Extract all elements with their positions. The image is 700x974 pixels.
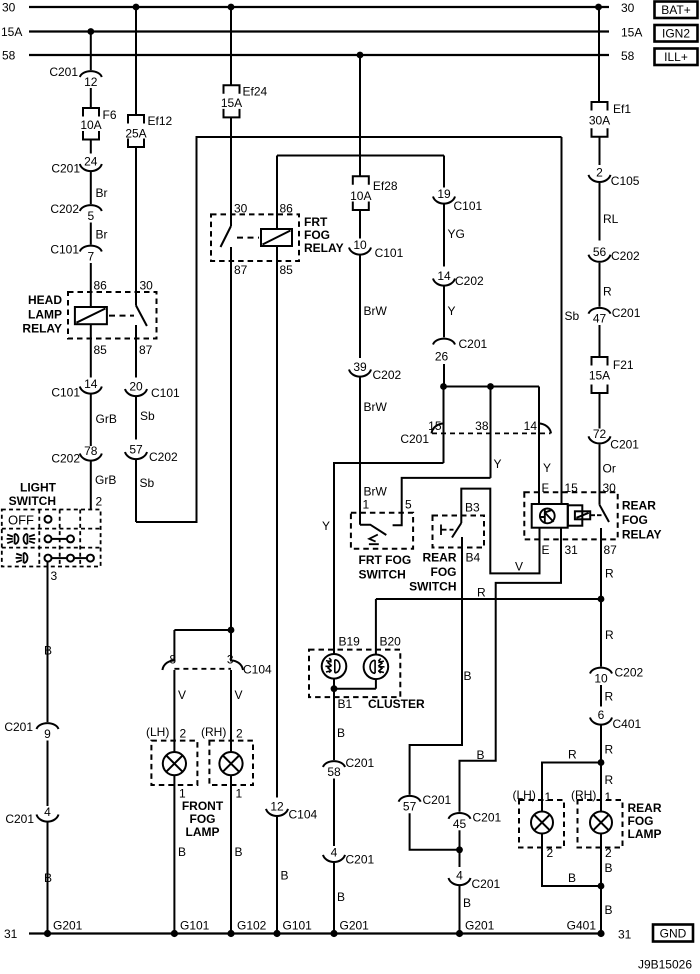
svg-text:REAR: REAR [628, 801, 662, 815]
svg-text:BrW: BrW [364, 485, 388, 499]
svg-text:YG: YG [448, 227, 465, 241]
wire R to rear fog lamp RH [600, 763, 602, 812]
ground G201 [44, 930, 51, 937]
svg-text:Ef24: Ef24 [243, 85, 268, 99]
connector C101 pin 20 [125, 389, 147, 396]
coil of front fog relay [261, 229, 292, 246]
svg-text:GrB: GrB [96, 412, 117, 426]
junction on bus 15A [87, 28, 94, 35]
bus wire 31 (ground) [29, 932, 601, 934]
wire merge to C201-4 [459, 850, 461, 867]
connector C201 pin 4 [37, 815, 59, 822]
svg-text:Sb: Sb [140, 409, 155, 423]
svg-text:C201: C201 [346, 756, 375, 770]
wire V C104-3 to front fog lamp RH [230, 670, 232, 752]
svg-text:V: V [235, 688, 243, 702]
node IGN2 [655, 25, 698, 42]
wire C201-12 to fuse F6 [90, 88, 92, 108]
rear fog relay coil [575, 511, 590, 519]
wire fuse F6 to C201-24 [90, 140, 92, 154]
wire C101-19 branch corner [443, 156, 445, 188]
wire from bus 58 down to fuse Ef28 [359, 55, 361, 176]
svg-text:Sb: Sb [565, 309, 580, 323]
svg-text:10: 10 [594, 672, 608, 686]
wire C101-7 to head lamp relay pin 86 [90, 263, 92, 307]
wire Y C202-14 to C201-26 [443, 287, 445, 338]
svg-text:C201: C201 [423, 793, 452, 807]
svg-text:87: 87 [604, 543, 618, 557]
svg-text:SWITCH: SWITCH [409, 580, 456, 594]
svg-text:V: V [515, 560, 523, 574]
wire R horizontal to cluster B20 [376, 598, 601, 600]
connector C104 pin 12 [266, 809, 288, 816]
svg-text:R: R [605, 628, 614, 642]
svg-text:SWITCH: SWITCH [359, 568, 406, 582]
connector C201 pin 4 [323, 855, 345, 862]
wire R C202-56 to C201-47 [599, 263, 601, 307]
svg-text:C202: C202 [51, 452, 80, 466]
svg-text:39: 39 [353, 360, 367, 374]
wire fuse Ef28 to C101-10 [359, 210, 361, 239]
svg-text:1: 1 [545, 790, 552, 804]
connector C202 pin 57 [125, 452, 147, 459]
svg-text:REAR: REAR [622, 499, 656, 513]
svg-text:GrB: GrB [95, 473, 116, 487]
fuse Ef12 25A [128, 115, 144, 124]
svg-text:V: V [178, 688, 186, 702]
junction cluster common [331, 685, 338, 692]
connector C201 dashed link [432, 432, 551, 434]
front fog relay enclosure [211, 214, 299, 261]
svg-text:4: 4 [44, 805, 51, 819]
svg-text:Br: Br [96, 228, 108, 242]
connector C201 pin 72 [589, 436, 611, 443]
junction rear lamp ground merge [598, 883, 605, 890]
svg-text:B19: B19 [339, 635, 361, 649]
front fog indicator lamp B19 [322, 654, 347, 679]
svg-text:2: 2 [605, 846, 612, 860]
svg-text:58: 58 [2, 49, 16, 63]
switch blade pin30-pin87 [136, 306, 147, 327]
svg-text:G102: G102 [237, 919, 267, 933]
wire C201-45 to ground merge junction [459, 830, 461, 850]
wire fuse F21 to C201-72 [599, 393, 601, 429]
svg-text:C201: C201 [473, 811, 502, 825]
rear fog lamp RH [578, 800, 623, 848]
svg-text:30: 30 [234, 202, 248, 216]
wire jog bottom horizontal [136, 521, 197, 523]
svg-text:BrW: BrW [364, 400, 388, 414]
svg-text:FOG: FOG [431, 565, 457, 579]
svg-text:72: 72 [593, 427, 607, 441]
wire Br C202-5 to C101-7 [90, 223, 92, 245]
svg-text:Br: Br [96, 186, 108, 200]
svg-text:R: R [568, 748, 577, 762]
svg-text:Ef1: Ef1 [613, 102, 631, 116]
svg-text:B: B [337, 726, 345, 740]
rear fog relay coil housing [568, 505, 582, 525]
ground G101 [171, 930, 178, 937]
svg-text:B3: B3 [465, 501, 480, 515]
junction ground merge [456, 846, 463, 853]
svg-text:31: 31 [618, 928, 632, 942]
wire horizontal front fog relay pin 86 to C101-19 branch [277, 155, 444, 157]
wire C201-9 to C201-4 [47, 741, 49, 807]
wire fuse Ef24 to front fog relay pin 30 [230, 117, 232, 226]
junction on bus 30 [133, 4, 140, 11]
front fog lamp RH [209, 741, 253, 785]
cluster enclosure [309, 650, 400, 698]
svg-text:58: 58 [327, 765, 341, 779]
wire cluster B20 lamp stub [375, 679, 377, 689]
svg-text:R: R [605, 773, 614, 787]
svg-text:RELAY: RELAY [622, 528, 662, 542]
svg-text:15A: 15A [221, 96, 242, 110]
svg-text:56: 56 [593, 245, 607, 259]
svg-text:B: B [464, 669, 472, 683]
svg-text:85: 85 [280, 263, 294, 277]
svg-text:G401: G401 [567, 919, 597, 933]
light switch parking position contacts [45, 555, 52, 562]
svg-text:R: R [477, 586, 486, 600]
svg-text:45: 45 [453, 817, 467, 831]
svg-text:4: 4 [456, 869, 463, 883]
svg-text:87: 87 [139, 343, 153, 357]
svg-text:6: 6 [598, 708, 605, 722]
wire R rear fog relay pin 87 down to junction [600, 528, 602, 599]
svg-text:15A: 15A [1, 25, 22, 39]
junction distribution node A [440, 383, 447, 390]
svg-text:57: 57 [129, 443, 143, 457]
wire jog vertical up [196, 136, 198, 523]
svg-text:31: 31 [4, 927, 18, 941]
svg-text:58: 58 [621, 49, 635, 63]
junction distribution node B [487, 383, 494, 390]
rear fog relay enclosure [524, 492, 617, 539]
wire branch to C104 pin 8 [174, 629, 231, 631]
svg-text:E: E [542, 543, 550, 557]
svg-text:C201: C201 [49, 65, 78, 79]
ground G201 [330, 930, 337, 937]
svg-text:3: 3 [51, 569, 58, 583]
svg-text:87: 87 [234, 263, 248, 277]
svg-text:86: 86 [280, 202, 294, 216]
svg-text:RL: RL [603, 212, 619, 226]
svg-text:B: B [337, 890, 345, 904]
svg-text:C201: C201 [346, 853, 375, 867]
svg-text:Sb: Sb [140, 476, 155, 490]
svg-text:FRONT: FRONT [182, 799, 224, 813]
svg-text:OFF: OFF [8, 513, 34, 528]
svg-text:B: B [281, 869, 289, 883]
junction C104 feed split [228, 627, 235, 634]
connector C101 pin 19 [433, 197, 455, 204]
svg-text:2: 2 [96, 495, 103, 509]
svg-text:B20: B20 [380, 635, 402, 649]
svg-text:FOG: FOG [304, 228, 330, 242]
svg-text:12: 12 [84, 75, 98, 89]
wire distribution horizontal [444, 386, 540, 388]
svg-text:(RH): (RH) [571, 788, 596, 802]
svg-text:ILL+: ILL+ [664, 50, 688, 64]
wire from bus 30 down to fuse Ef24 [230, 7, 232, 85]
fuse Ef1 30A [592, 102, 608, 111]
wire B cluster B1 down to C201-58 [333, 689, 335, 760]
wire C201-47 to fuse F21 [599, 325, 601, 357]
svg-text:B: B [568, 871, 576, 885]
svg-text:4: 4 [331, 845, 338, 859]
ground G401 [597, 930, 604, 937]
svg-text:C104: C104 [289, 808, 318, 822]
svg-text:REAR: REAR [422, 551, 456, 565]
junction on bus 30 [228, 4, 235, 11]
svg-text:85: 85 [94, 343, 108, 357]
wire R C202-10 to C401-6 [600, 685, 602, 707]
wire RL C105-2 to C202-56 [599, 183, 601, 241]
svg-text:1: 1 [236, 787, 243, 801]
svg-text:C201: C201 [51, 162, 80, 176]
svg-text:C202: C202 [615, 666, 644, 680]
svg-text:C101: C101 [375, 246, 404, 260]
svg-text:G101: G101 [180, 919, 210, 933]
wire B rear fog switch pin B4 down to C201-57 [410, 537, 462, 795]
svg-text:C201: C201 [612, 306, 641, 320]
svg-text:Ef28: Ef28 [373, 179, 398, 193]
svg-text:J9B15026: J9B15026 [638, 958, 692, 972]
rear fog relay actuation link [590, 514, 595, 516]
svg-text:B: B [477, 748, 485, 762]
head lamp relay enclosure [68, 292, 157, 339]
svg-text:C202: C202 [149, 450, 178, 464]
wire C201-57 to ground merge [410, 813, 460, 850]
svg-text:BrW: BrW [364, 304, 388, 318]
svg-text:15A: 15A [621, 26, 642, 40]
svg-text:C202: C202 [50, 202, 79, 216]
fuse F6 10A [83, 108, 99, 117]
wire pin 86 into coil [276, 156, 278, 230]
wire B C201-4 to ground G201 [459, 886, 461, 934]
svg-text:57: 57 [403, 800, 417, 814]
junction rear lamp split [598, 759, 605, 766]
bus wire 15A (ignition feed) [29, 30, 609, 32]
svg-text:2: 2 [596, 165, 603, 179]
wire Sb horizontal feed to rear fog relay pin 15 [196, 136, 562, 138]
coil of head lamp relay [75, 307, 107, 324]
rear fog switch blade [452, 523, 461, 538]
wire head lamp relay pin 87 to C101-20 [135, 325, 137, 378]
wire BrW C101-10 to C202-39 [359, 256, 361, 359]
svg-text:RELAY: RELAY [304, 241, 344, 255]
wire Sb C101-20 to C202-57 [135, 397, 137, 440]
svg-text:C202: C202 [373, 368, 402, 382]
svg-text:C201: C201 [5, 812, 34, 826]
svg-text:G201: G201 [340, 919, 370, 933]
rear fog relay switch blade pin30-pin87 [600, 505, 610, 522]
svg-text:10: 10 [353, 238, 367, 252]
junction R split [598, 596, 605, 603]
svg-text:C401: C401 [613, 717, 642, 731]
wire Sb C202-57 down to jog [135, 460, 137, 522]
svg-text:B: B [605, 861, 613, 875]
svg-text:38: 38 [475, 419, 489, 433]
svg-text:78: 78 [84, 444, 98, 458]
dashed actuation link [109, 315, 134, 317]
svg-text:14: 14 [437, 269, 451, 283]
svg-text:10A: 10A [80, 118, 101, 132]
svg-text:LAMP: LAMP [628, 827, 662, 841]
rear fog lamp LH [519, 800, 564, 848]
wire Sb vertical down to rear fog relay pin 15 [561, 137, 563, 504]
bus wire 58 (illumination feed) [29, 54, 609, 56]
svg-text:B: B [44, 871, 52, 885]
svg-text:B: B [44, 644, 52, 658]
wire R C401-6 to rear lamp split [600, 726, 602, 763]
svg-text:LAMP: LAMP [28, 307, 62, 321]
wire head lamp relay pin 85 to C101-14 [90, 324, 92, 377]
wire C201-58 to C201-4 [333, 779, 335, 847]
svg-text:SWITCH: SWITCH [9, 494, 56, 508]
wire Y front fog switch pin 5 up to C201-38 [402, 478, 491, 513]
wire BrW C202-39 to front fog switch pin 1 [359, 378, 361, 525]
wire B rear fog lamp RH down [600, 834, 602, 887]
svg-text:G101: G101 [283, 919, 313, 933]
svg-text:FOG: FOG [190, 812, 216, 826]
svg-text:31: 31 [565, 543, 579, 557]
switch blade pin30-pin87 [221, 226, 232, 247]
svg-text:B4: B4 [466, 551, 481, 565]
svg-text:30A: 30A [589, 114, 610, 128]
svg-text:30: 30 [140, 279, 154, 293]
svg-text:C201: C201 [459, 337, 488, 351]
svg-text:12: 12 [270, 799, 284, 813]
connector C101 pin 10 [349, 248, 371, 255]
svg-text:5: 5 [87, 209, 94, 223]
svg-text:FRT: FRT [304, 215, 328, 229]
svg-text:IGN2: IGN2 [662, 27, 690, 41]
svg-text:G201: G201 [53, 919, 83, 933]
connector C202 pin 56 [589, 255, 611, 262]
svg-text:26: 26 [435, 350, 449, 364]
svg-text:R: R [605, 743, 614, 757]
ground G201 [456, 930, 463, 937]
svg-text:30: 30 [621, 1, 635, 15]
connector C105 pin 2 [589, 175, 611, 182]
svg-text:Y: Y [448, 304, 456, 318]
front fog switch blade [360, 525, 386, 535]
svg-text:(RH): (RH) [201, 725, 226, 739]
svg-text:C201: C201 [400, 432, 429, 446]
wire from bus 30 down to fuse Ef12 [135, 7, 137, 115]
svg-text:5: 5 [405, 498, 412, 512]
fuse Ef28 10A [353, 176, 369, 185]
svg-text:7: 7 [87, 250, 94, 264]
svg-text:Ef12: Ef12 [148, 114, 173, 128]
svg-text:20: 20 [129, 380, 143, 394]
svg-text:G201: G201 [465, 919, 495, 933]
svg-text:14: 14 [524, 419, 538, 433]
svg-text:9: 9 [44, 727, 51, 741]
rear fog indicator lamp B20 [364, 655, 389, 680]
svg-text:C202: C202 [455, 274, 484, 288]
svg-text:C201: C201 [472, 877, 501, 891]
wire from bus 30 down to fuse Ef1 [598, 7, 600, 102]
svg-text:F21: F21 [613, 358, 634, 372]
svg-text:R: R [605, 567, 614, 581]
front fog lamp LH [151, 741, 197, 785]
svg-text:86: 86 [94, 279, 108, 293]
svg-text:C105: C105 [611, 174, 640, 188]
svg-text:2: 2 [547, 846, 554, 860]
wire V C104-8 to front fog lamp LH [173, 670, 175, 752]
svg-text:RELAY: RELAY [22, 322, 62, 336]
svg-text:FOG: FOG [628, 814, 654, 828]
wire corner drop to C201 pin 14 [538, 387, 540, 505]
connector C104 dashed link [174, 668, 231, 670]
wire Y C201-15 to cluster B19 [334, 463, 444, 654]
light switch enclosure grid [2, 510, 101, 567]
connector C202 pin 78 [80, 454, 102, 461]
svg-text:47: 47 [593, 312, 607, 326]
wire Or C201-72 to rear fog relay pin 30 [599, 444, 601, 505]
svg-text:B: B [605, 903, 613, 917]
svg-text:1: 1 [363, 498, 370, 512]
wire branch to C104 pin 3 [230, 630, 232, 661]
svg-text:LAMP: LAMP [186, 825, 220, 839]
connector C201 right end curl [538, 423, 551, 433]
svg-text:2: 2 [180, 727, 187, 741]
svg-text:1: 1 [605, 790, 612, 804]
svg-text:2: 2 [236, 727, 243, 741]
connector C201 left end curl [432, 423, 445, 433]
connector C101 pin 14 [80, 387, 102, 394]
wire R branch to rear fog lamp LH [542, 763, 601, 812]
wire front fog relay pin 85 long drop to C104-12 [276, 246, 278, 798]
wire C201-26 down to distribution node [443, 364, 445, 387]
svg-text:B1: B1 [338, 697, 353, 711]
svg-text:14: 14 [84, 377, 98, 391]
svg-text:BAT+: BAT+ [661, 3, 690, 17]
wire GrB C202-78 to light switch pin 2 [90, 462, 92, 510]
wire B C104-12 to ground G101 [276, 817, 278, 934]
light switch OFF contact [45, 516, 52, 523]
svg-text:GND: GND [660, 927, 687, 941]
front fog switch enclosure [351, 513, 413, 549]
bus wire 30 (battery feed) [29, 6, 609, 8]
wire B rear fog lamp LH to merge [542, 834, 601, 887]
rear fog relay timer symbol [540, 509, 555, 524]
svg-text:B: B [235, 845, 243, 859]
rear fog relay timer unit [532, 504, 568, 528]
wire rear fog relay pin 31 to C201-45 [460, 528, 562, 812]
ground G102 [227, 930, 234, 937]
wire Br C201-24 to C202-5 [90, 172, 92, 204]
svg-text:B: B [178, 845, 186, 859]
svg-text:C201: C201 [4, 720, 33, 734]
wire B front fog lamp LH to ground G101 [173, 775, 175, 933]
svg-text:B: B [463, 896, 471, 910]
svg-text:R: R [605, 690, 614, 704]
wire rear fog switch pin B3 up and over to rear fog relay pin E [461, 489, 539, 574]
wire from bus 15A down to C201-12 [90, 32, 92, 71]
node BAT+ [655, 2, 698, 19]
svg-text:R: R [603, 285, 612, 299]
wire cluster common horizontal [334, 688, 376, 690]
wire B front fog lamp RH to ground G102 [230, 775, 232, 933]
node GND [653, 925, 693, 942]
wire B C201-4 to ground G201 [333, 863, 335, 934]
svg-text:10A: 10A [350, 189, 371, 203]
svg-text:C104: C104 [243, 663, 272, 677]
